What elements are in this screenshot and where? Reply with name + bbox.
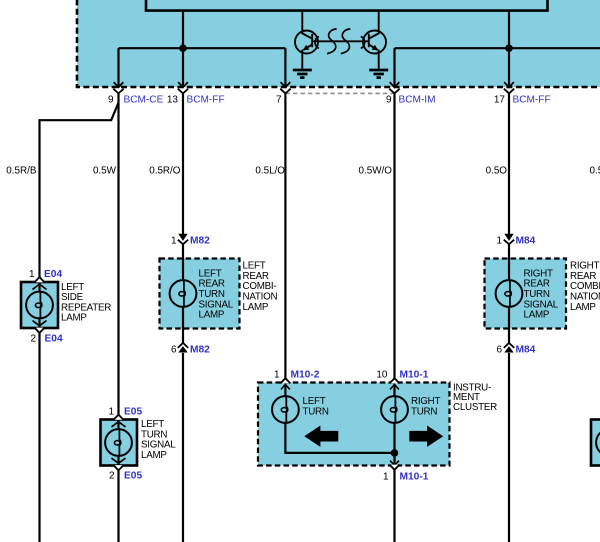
svg-text:M10-1: M10-1 xyxy=(400,369,429,380)
svg-text:LAMP: LAMP xyxy=(199,310,225,321)
svg-text:M10-2: M10-2 xyxy=(291,369,320,380)
svg-text:2: 2 xyxy=(109,471,115,482)
svg-text:LAMP: LAMP xyxy=(141,450,167,461)
svg-text:6: 6 xyxy=(496,344,502,355)
svg-text:13: 13 xyxy=(167,94,179,105)
svg-text:0.5R/B: 0.5R/B xyxy=(6,166,37,177)
svg-text:7: 7 xyxy=(276,94,282,105)
svg-text:0.5L/O: 0.5L/O xyxy=(255,166,285,177)
svg-text:LAMP: LAMP xyxy=(570,302,596,313)
svg-text:9: 9 xyxy=(108,94,114,105)
svg-text:M82: M82 xyxy=(190,236,210,247)
svg-text:9: 9 xyxy=(386,94,392,105)
svg-text:M10-1: M10-1 xyxy=(400,471,429,482)
svg-text:1: 1 xyxy=(108,407,114,418)
svg-text:BCM-CE: BCM-CE xyxy=(124,94,164,105)
svg-text:E05: E05 xyxy=(124,471,142,482)
svg-text:LAMP: LAMP xyxy=(61,313,87,324)
svg-text:CLUSTER: CLUSTER xyxy=(453,402,497,413)
svg-text:BCM-IM: BCM-IM xyxy=(399,94,436,105)
svg-text:E05: E05 xyxy=(124,407,142,418)
svg-text:LAMP: LAMP xyxy=(243,302,269,313)
svg-text:0.5O: 0.5O xyxy=(486,166,508,177)
svg-text:6: 6 xyxy=(171,344,177,355)
svg-text:0.5R/O: 0.5R/O xyxy=(149,166,181,177)
svg-text:10: 10 xyxy=(376,369,388,380)
svg-text:TURN: TURN xyxy=(303,406,329,417)
svg-text:M84: M84 xyxy=(516,344,536,355)
svg-text:1: 1 xyxy=(29,269,35,280)
svg-text:0.5W/O: 0.5W/O xyxy=(359,166,393,177)
svg-text:1: 1 xyxy=(274,369,280,380)
svg-text:TURN: TURN xyxy=(411,406,437,417)
svg-text:BCM-FF: BCM-FF xyxy=(187,94,225,105)
svg-text:17: 17 xyxy=(494,94,506,105)
svg-text:E04: E04 xyxy=(45,333,63,344)
svg-text:BCM-FF: BCM-FF xyxy=(513,94,551,105)
svg-text:0.5G: 0.5G xyxy=(590,166,600,177)
svg-text:LAMP: LAMP xyxy=(524,310,550,321)
svg-text:M84: M84 xyxy=(516,236,536,247)
svg-text:E04: E04 xyxy=(44,269,62,280)
svg-text:1: 1 xyxy=(171,236,177,247)
svg-text:1: 1 xyxy=(383,471,389,482)
svg-text:2: 2 xyxy=(30,333,36,344)
svg-text:M82: M82 xyxy=(190,344,210,355)
svg-text:0.5W: 0.5W xyxy=(93,166,117,177)
svg-text:1: 1 xyxy=(496,236,502,247)
